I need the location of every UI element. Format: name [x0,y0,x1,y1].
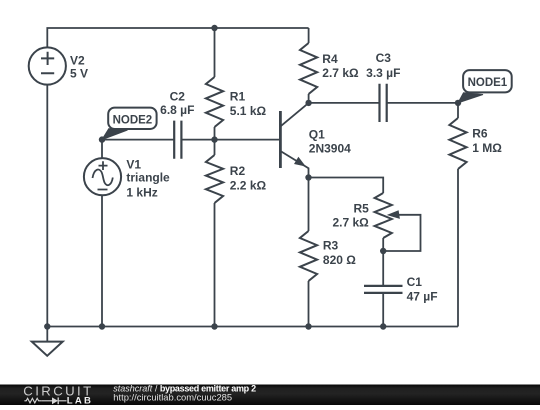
wire top rail from V2 to R4 [47,28,308,48]
resistor R3 [300,178,356,327]
wire collector node to C3 left plate [309,102,380,104]
svg-text:R6: R6 [472,127,488,141]
svg-text:R2: R2 [230,164,246,178]
svg-text:Q1: Q1 [309,127,325,141]
svg-text:1 MΩ: 1 MΩ [472,141,502,155]
svg-text:2N3904: 2N3904 [309,141,351,155]
svg-text:1 kHz: 1 kHz [126,185,157,199]
junction dot (47,326.5) [44,323,50,329]
junction dot (308.5,177.5) [305,174,311,180]
resistor R1 [206,28,267,140]
junction dot (308.6,102.9) [305,100,311,106]
junction dot (214.5,139.6) [211,136,217,142]
wire V2 bottom lead down to ground rail [46,85,48,327]
svg-text:47 µF: 47 µF [407,290,438,304]
resistor R6 [449,103,502,327]
svg-text:R1: R1 [230,90,246,104]
voltage source V1 (triangle function generator) [84,157,170,199]
junction dot (308.5,326.5) [305,323,311,329]
junction dot (458,102.9) [455,100,461,106]
R5 wiper arrow [387,210,400,219]
wire bottom ground rail [47,326,458,328]
svg-text:LAB: LAB [67,396,93,405]
capacitor C3 [366,51,400,122]
node NODE1 flag [458,70,512,103]
svg-text:5 V: 5 V [70,66,88,80]
svg-text:triangle: triangle [126,171,170,185]
wire R5 wiper loop [383,215,420,251]
svg-text:R3: R3 [323,238,339,252]
node NODE2 flag [102,108,157,140]
CircuitLab logo [23,383,93,406]
wire C2 right plate to base node and Q1 base [181,139,279,141]
capacitor C1 [364,275,438,304]
resistor R4 [300,28,359,103]
svg-text:2.2 kΩ: 2.2 kΩ [230,179,267,193]
wire V1 top lead [101,140,103,159]
resistor R2 [206,140,267,327]
junction dot (383.2,326.5) [380,323,386,329]
svg-text:V1: V1 [126,157,141,171]
junction dot (214.5,326.5) [211,323,217,329]
wire C1 bottom plate to ground rail [382,293,384,327]
capacitor C2 [160,90,194,159]
svg-text:R5: R5 [353,202,369,216]
svg-text:C1: C1 [407,275,423,289]
svg-text:3.3 µF: 3.3 µF [366,66,400,80]
svg-text:NODE2: NODE2 [113,114,153,126]
svg-text:http://circuitlab.com/cuuc285: http://circuitlab.com/cuuc285 [113,391,232,402]
svg-text:820 Ω: 820 Ω [323,253,356,267]
junction dot (383.2,251) [380,248,386,254]
transistor Q1 2N3904 [280,103,351,178]
svg-text:2.7 kΩ: 2.7 kΩ [332,216,369,230]
svg-text:C3: C3 [376,51,392,65]
wire R5 bottom to C1 top plate [382,238,384,286]
ground [32,327,63,356]
junction dot (214.5,28) [211,25,217,31]
wire NODE2 to C2 left plate [102,139,174,141]
svg-text:2.7 kΩ: 2.7 kΩ [322,66,359,80]
wire V1 bottom lead [101,195,103,327]
svg-text:R4: R4 [322,52,338,66]
wire C3 right plate to NODE1 [387,102,458,104]
junction dot (102,139.6) [99,136,105,142]
wire emitter node to R5 branch [309,178,384,194]
potentiometer R5 [332,193,420,251]
voltage source V2 [29,47,88,84]
svg-text:5.1 kΩ: 5.1 kΩ [230,104,267,118]
junction dot (102,326.5) [99,323,105,329]
svg-text:C2: C2 [170,90,186,104]
svg-text:NODE1: NODE1 [468,77,508,89]
svg-text:V2: V2 [70,53,85,67]
svg-text:6.8 µF: 6.8 µF [160,103,194,117]
